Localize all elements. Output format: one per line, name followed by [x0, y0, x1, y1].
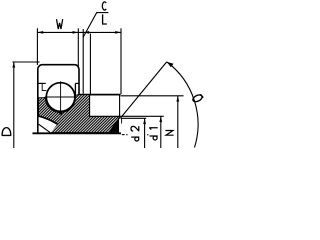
d2 arrow — [143, 118, 146, 124]
d2 level line — [121, 117, 147, 119]
ext line C — [82, 29, 84, 94]
bearing cross-section dimension drawing — [0, 0, 206, 148]
arc arrowhead at peak — [167, 62, 174, 67]
bore step right — [74, 83, 76, 96]
N level line — [121, 95, 184, 97]
label d1 rotated — [149, 128, 157, 140]
ext line L right — [120, 28, 122, 94]
d2 dim line — [144, 118, 146, 148]
label L — [103, 15, 107, 24]
dim line top (W C L) — [37, 31, 121, 33]
label alpha — [192, 93, 204, 103]
bore chamfer diagonal — [39, 124, 51, 132]
ball — [46, 83, 75, 112]
ball center line vertical — [60, 81, 62, 111]
axis dot — [126, 134, 127, 135]
bore step left — [42, 83, 46, 90]
solid black triangle (collar section right end) — [109, 118, 118, 131]
d1 dim line — [160, 116, 162, 148]
D ext line — [12, 61, 39, 63]
angle line — [121, 62, 167, 118]
arrow C right — [83, 31, 89, 34]
label D rotated — [2, 128, 11, 136]
outer ring bore line left — [39, 82, 46, 84]
ball center line horizontal — [45, 96, 77, 98]
white rect (collar hub, unhatched) — [90, 95, 120, 116]
N arrow — [176, 96, 179, 102]
label N rotated — [166, 131, 173, 136]
ext line W left — [36, 28, 38, 65]
pivot stub — [121, 118, 123, 123]
ext line C2 — [89, 34, 91, 96]
D dimension line — [13, 62, 15, 148]
d1 arrow — [159, 116, 162, 122]
angle arc — [167, 62, 198, 148]
arrow W right — [73, 31, 79, 34]
label d2 rotated — [131, 126, 139, 141]
label W — [57, 20, 63, 29]
N dim line — [177, 96, 179, 148]
white wedge bottom-left — [38, 116, 57, 133]
inner piece bottom boundary curve — [38, 116, 57, 124]
arrow W left — [37, 31, 43, 34]
d1 level line — [120, 115, 164, 117]
C leader — [83, 13, 108, 38]
axis dot2 — [147, 134, 148, 135]
axis dash — [122, 134, 125, 136]
label C — [102, 2, 106, 10]
outer ring rounded contour — [38, 65, 79, 134]
outer ring bore line right — [75, 82, 79, 84]
hatched section region (inner ring + collar) — [39, 94, 120, 132]
body bottom / axis line — [33, 132, 122, 134]
center line dash below ball — [59, 111, 62, 115]
collar top line — [79, 93, 121, 95]
ext line W right — [77, 28, 79, 68]
D arrow up — [12, 62, 15, 68]
arrow L right — [115, 31, 121, 34]
